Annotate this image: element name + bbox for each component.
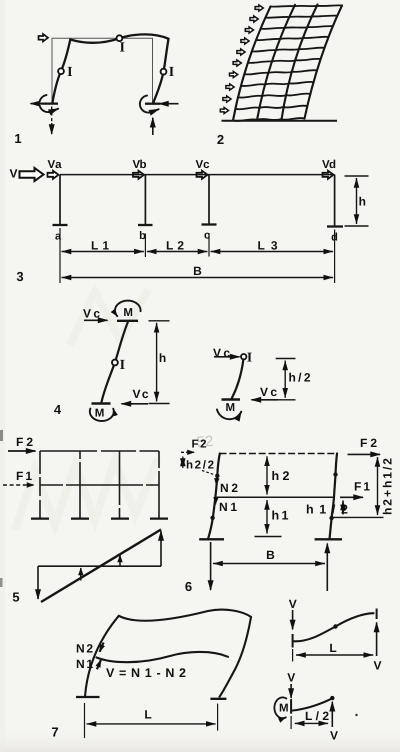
svg-text:L: L bbox=[329, 641, 336, 655]
end inflection dot bbox=[330, 696, 334, 700]
scan speckle dot bbox=[355, 714, 357, 716]
svg-text:I: I bbox=[247, 349, 252, 364]
inflection point circle right column bbox=[161, 69, 167, 75]
extension line b bbox=[144, 234, 146, 258]
left extension line bbox=[290, 716, 292, 729]
h1 dimension bottom tick bbox=[255, 536, 282, 538]
wall a shear arrow (open) bbox=[48, 171, 59, 179]
svg-text:V: V bbox=[289, 597, 297, 611]
right base tick bbox=[145, 103, 161, 105]
deflected second column line bbox=[257, 5, 295, 120]
svg-text:1: 1 bbox=[14, 131, 21, 146]
frame column 3 bbox=[119, 451, 121, 518]
top shear arrow bbox=[84, 319, 108, 321]
svg-text:2: 2 bbox=[217, 132, 224, 147]
N1 arrow bbox=[214, 499, 217, 505]
wall c base tick bbox=[202, 223, 217, 225]
F1 arrow bbox=[340, 496, 363, 498]
h2 dimension line bbox=[266, 456, 268, 494]
deflected left column bbox=[52, 40, 70, 104]
collector beam line bbox=[60, 174, 335, 176]
svg-text:V: V bbox=[373, 659, 381, 673]
figure 4b: half column free body bbox=[213, 346, 311, 419]
N2 arrow at beam-wall joint bbox=[100, 643, 104, 652]
svg-text:I: I bbox=[169, 65, 174, 80]
svg-text:4: 4 bbox=[54, 402, 62, 417]
figure 4: column free body with double curvature bbox=[54, 301, 170, 421]
right end tick bbox=[376, 609, 378, 620]
dimension L bbox=[87, 723, 216, 725]
wavy floor lines bbox=[233, 5, 342, 121]
mid chord bbox=[216, 496, 334, 498]
left base shear arrow bbox=[31, 103, 51, 105]
deflected right column bbox=[153, 39, 168, 103]
V up arrow bbox=[331, 702, 333, 727]
right base tick bbox=[315, 538, 342, 540]
h dimension bottom tick bbox=[345, 225, 369, 227]
frame column 4 bbox=[158, 451, 160, 518]
deflected right edge column bbox=[305, 6, 343, 119]
svg-text:V: V bbox=[9, 167, 17, 181]
h/2 dimension line bbox=[284, 361, 286, 398]
wall c bbox=[208, 175, 210, 225]
right extension line bbox=[217, 704, 219, 731]
right base shear arrow bbox=[159, 103, 179, 105]
V down arrow left bbox=[292, 610, 294, 629]
wall a base tick bbox=[53, 224, 68, 226]
bottom shear arrow bbox=[122, 403, 149, 405]
svg-text:h: h bbox=[359, 195, 366, 209]
coupling beam free body (full span) bbox=[289, 597, 382, 673]
total shear open arrow bbox=[20, 168, 44, 181]
svg-text:V: V bbox=[287, 671, 295, 685]
h dimension line bbox=[156, 323, 158, 402]
F2 left dashed arrow bbox=[181, 451, 195, 453]
right pier deflected bbox=[330, 454, 338, 540]
inflection dot upper right bbox=[333, 472, 337, 476]
ground line bbox=[222, 120, 338, 122]
axial force diagonal bbox=[41, 530, 161, 603]
wall d base tick bbox=[327, 225, 343, 227]
small arrow 2 bbox=[119, 555, 121, 566]
frame top chord bbox=[40, 450, 159, 452]
inflection dot lower left bbox=[210, 516, 214, 520]
figure 3: wall line with shears Va-Vd bbox=[9, 159, 368, 284]
svg-text:V: V bbox=[330, 729, 338, 743]
deflected beam bbox=[70, 34, 168, 43]
left base tick bbox=[41, 102, 58, 104]
midspan inflection dot bbox=[333, 624, 337, 628]
svg-text:h/2: h/2 bbox=[289, 371, 311, 385]
svg-text:N1: N1 bbox=[76, 657, 93, 671]
base tick 2 bbox=[71, 517, 89, 519]
lower reference line bbox=[332, 516, 384, 518]
storey load arrows (small open arrows) bbox=[255, 5, 263, 11]
h1 dimension line bbox=[266, 500, 268, 534]
extension line d bbox=[334, 230, 336, 284]
top moment arc bbox=[115, 301, 141, 317]
left wall base tick bbox=[76, 696, 100, 698]
N2 arrow bbox=[215, 478, 218, 486]
wall b shear arrow (open) bbox=[133, 171, 144, 179]
dimension B bbox=[62, 277, 334, 279]
dimension L1 bbox=[62, 251, 144, 253]
load arrow (open) bbox=[39, 34, 49, 42]
axial force diagram base line bbox=[38, 565, 161, 567]
top chord (dashed) bbox=[220, 453, 338, 455]
lower coupling beam deflected bbox=[97, 652, 229, 662]
left base tick bbox=[199, 538, 224, 540]
h dimension top tick bbox=[345, 175, 369, 177]
inflection point circle beam bbox=[117, 35, 123, 41]
svg-text:L/2: L/2 bbox=[305, 709, 329, 723]
left wall deflected bbox=[85, 616, 119, 697]
svg-text:M: M bbox=[123, 307, 133, 319]
wall a bbox=[59, 175, 61, 225]
wall d shear arrow (open) bbox=[323, 171, 334, 179]
deflected half beam bbox=[293, 698, 333, 710]
svg-text:I: I bbox=[67, 65, 72, 80]
deflected beam shape bbox=[294, 613, 374, 641]
inflection circle bbox=[112, 360, 118, 366]
column top tick bbox=[117, 320, 138, 322]
left reaction arrow (down) bbox=[210, 542, 212, 590]
F2 load arrow bbox=[8, 450, 36, 452]
left extension line bbox=[84, 703, 86, 738]
right base axial force arrow (up) bbox=[152, 118, 154, 135]
left end tick bbox=[290, 699, 292, 714]
svg-text:h: h bbox=[159, 351, 166, 365]
svg-text:3: 3 bbox=[16, 269, 23, 284]
figure 6: coupled wall free body bbox=[181, 436, 395, 594]
deflected third column line bbox=[282, 5, 318, 120]
right end reaction arrow (up) bbox=[160, 531, 162, 566]
svg-text:h2/2: h2/2 bbox=[186, 460, 214, 472]
svg-text:5: 5 bbox=[12, 590, 19, 605]
base tick 4 bbox=[150, 517, 168, 519]
top coupling beam deflected bbox=[119, 610, 251, 621]
h/2 dimension top tick bbox=[276, 358, 296, 360]
bottom moment arc bbox=[90, 409, 114, 421]
V down arrow bbox=[290, 684, 292, 698]
right base moment arc bbox=[140, 96, 159, 113]
svg-text:6: 6 bbox=[185, 579, 192, 594]
column bottom tick bbox=[222, 398, 241, 400]
wall b bbox=[144, 175, 146, 225]
figure 7: coupled walls with deformed coupling beams bbox=[51, 610, 251, 740]
h1/2 dimension arrow bbox=[342, 501, 344, 515]
svg-text:I: I bbox=[120, 358, 125, 373]
dashed leader to inflection bbox=[202, 471, 215, 475]
inflection dot upper left bbox=[215, 474, 219, 478]
dimension L3 bbox=[211, 251, 334, 253]
column deflected shape bbox=[101, 323, 127, 404]
moment arc M bbox=[274, 697, 286, 718]
base tick 1 bbox=[31, 517, 49, 519]
column bottom tick bbox=[92, 402, 111, 404]
svg-text:Vb: Vb bbox=[133, 159, 147, 171]
svg-text:L: L bbox=[144, 708, 151, 722]
h dimension top tick bbox=[149, 320, 170, 322]
right reaction arrow (up) bbox=[326, 544, 328, 592]
svg-text:B: B bbox=[193, 264, 202, 278]
h dimension bottom tick bbox=[149, 403, 170, 405]
F2 right arrow bbox=[348, 453, 381, 455]
wall c shear arrow (open) bbox=[197, 171, 208, 179]
h2/2 small dimension arrow bbox=[182, 457, 184, 469]
inflection point circle left column bbox=[58, 68, 64, 74]
dimension L2 bbox=[147, 251, 208, 253]
frame column 1 bbox=[39, 451, 41, 518]
bottom shear arrow bbox=[252, 399, 279, 401]
dimension B bbox=[213, 563, 325, 565]
svg-text:B: B bbox=[266, 548, 275, 562]
svg-text:Va: Va bbox=[48, 159, 63, 171]
right wall base tick bbox=[210, 698, 226, 700]
undeformed frame outline bbox=[52, 38, 153, 103]
left pier deflected bbox=[208, 454, 220, 540]
coupling beam free body (half span) bbox=[274, 671, 357, 743]
dimension L bbox=[296, 654, 373, 656]
deflected left edge column bbox=[233, 7, 271, 121]
V up arrow right bbox=[376, 623, 378, 657]
svg-text:7: 7 bbox=[51, 725, 58, 740]
svg-text:M: M bbox=[279, 702, 289, 714]
h2+h1/2 dimension line bbox=[377, 457, 379, 515]
wall d bbox=[334, 175, 336, 227]
frame mid chord bbox=[40, 484, 159, 486]
svg-text:Vd: Vd bbox=[322, 159, 336, 171]
left end reaction arrow (down) bbox=[37, 566, 39, 599]
left extension line bbox=[292, 649, 294, 662]
svg-text:N2: N2 bbox=[76, 642, 93, 656]
svg-text:M: M bbox=[226, 402, 236, 414]
small arrow 1 bbox=[80, 568, 82, 581]
half column deflected shape bbox=[232, 359, 244, 398]
left base axial force arrow (dashed, down) bbox=[51, 107, 53, 125]
top shear arrow to inflection point bbox=[214, 356, 240, 358]
left end tick bbox=[292, 634, 294, 648]
figure 2: multistorey frame deflected in shear mode bbox=[217, 5, 342, 148]
extension line a bbox=[59, 228, 61, 283]
base tick 3 bbox=[111, 517, 129, 519]
inflection dot lower right bbox=[329, 516, 333, 520]
left base moment arc bbox=[39, 95, 58, 112]
scan fade breaks on frame lines bbox=[40, 451, 159, 508]
bottom moment arc bbox=[217, 409, 241, 419]
extension line c bbox=[208, 233, 210, 257]
right wall deflected bbox=[220, 617, 252, 697]
frame column 2 bbox=[79, 451, 81, 518]
F1 load arrow (dashed) bbox=[3, 484, 34, 486]
N1 arrow at beam-wall joint bbox=[97, 660, 101, 669]
h dimension line bbox=[356, 178, 358, 224]
wall b base tick bbox=[138, 224, 153, 226]
inflection circle bbox=[241, 354, 246, 359]
dimension L/2 bbox=[295, 722, 328, 724]
h/2 dimension bottom tick bbox=[276, 399, 296, 401]
svg-text:I: I bbox=[119, 41, 124, 56]
svg-text:M: M bbox=[95, 407, 105, 419]
svg-text:a: a bbox=[55, 231, 62, 243]
figure 1: portal frame with deflected shape bbox=[14, 34, 178, 146]
figure 5: two storey frame with lateral loads bbox=[3, 435, 168, 605]
svg-text:Vc: Vc bbox=[196, 159, 211, 171]
